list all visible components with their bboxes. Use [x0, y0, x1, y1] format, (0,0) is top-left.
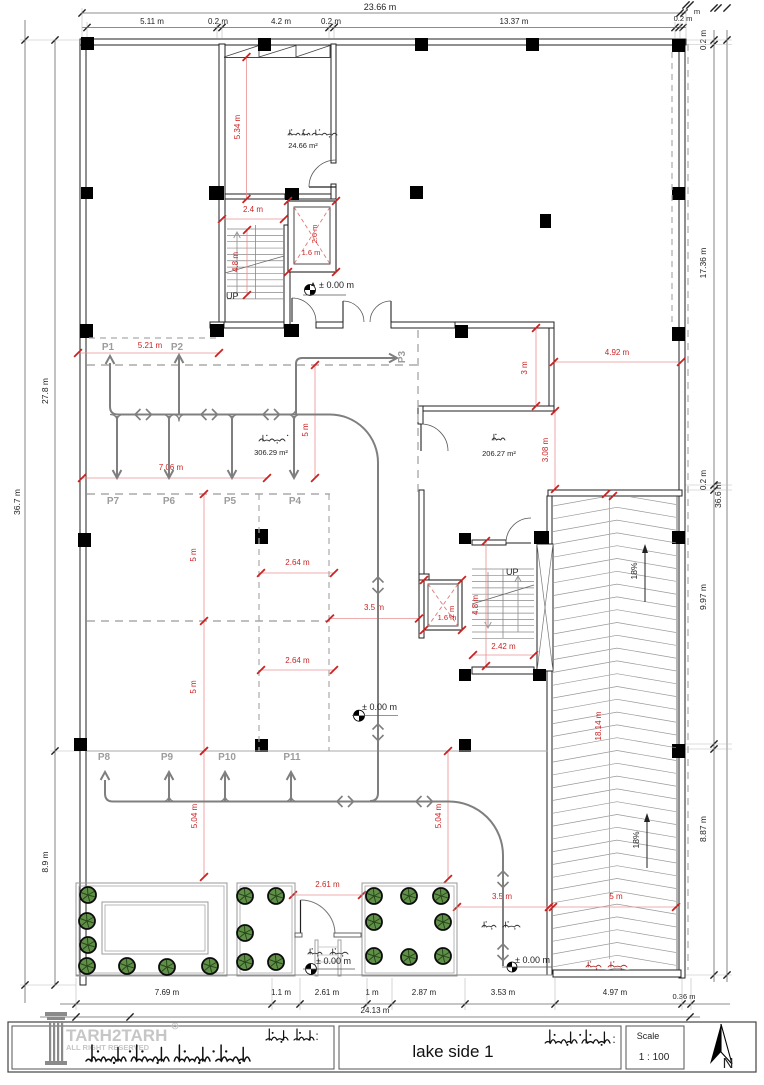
- svg-text::: :: [612, 1032, 615, 1046]
- svg-text:5.21 m: 5.21 m: [138, 341, 163, 350]
- svg-text:5 m: 5 m: [189, 680, 198, 694]
- svg-text:5 m: 5 m: [609, 892, 623, 901]
- svg-text:P9: P9: [161, 752, 174, 763]
- svg-text:23.66 m: 23.66 m: [364, 2, 397, 12]
- svg-text:± 0.00 m: ± 0.00 m: [319, 280, 354, 290]
- svg-text:24.13 m: 24.13 m: [361, 1006, 390, 1015]
- svg-text:m: m: [694, 7, 700, 16]
- svg-text:3.08 m: 3.08 m: [541, 437, 550, 462]
- svg-text:5.04 m: 5.04 m: [190, 803, 199, 828]
- svg-text:36.6 m: 36.6 m: [713, 482, 723, 508]
- svg-text:18.14 m: 18.14 m: [594, 711, 603, 740]
- svg-text:4.97 m: 4.97 m: [603, 988, 628, 997]
- svg-text:5 m: 5 m: [301, 423, 310, 437]
- svg-text:UP: UP: [226, 291, 239, 301]
- svg-text:P5: P5: [224, 496, 237, 507]
- svg-text:± 0.00 m: ± 0.00 m: [316, 956, 351, 966]
- svg-text:2.87 m: 2.87 m: [412, 988, 437, 997]
- svg-text:0.36 m: 0.36 m: [673, 992, 696, 1001]
- svg-text:3 m: 3 m: [520, 361, 529, 375]
- svg-text:5 m: 5 m: [189, 548, 198, 562]
- svg-text:2.42 m: 2.42 m: [491, 642, 516, 651]
- svg-text:4.8 m: 4.8 m: [471, 595, 480, 615]
- svg-text:1 : 100: 1 : 100: [639, 1052, 670, 1063]
- svg-text:P3: P3: [397, 350, 408, 363]
- svg-text:5.11 m: 5.11 m: [140, 17, 164, 26]
- svg-text:0.2 m: 0.2 m: [699, 470, 708, 490]
- svg-text:P6: P6: [163, 496, 176, 507]
- svg-text:2.61 m: 2.61 m: [315, 880, 340, 889]
- svg-text:206.27 m²: 206.27 m²: [482, 449, 516, 458]
- svg-text:4.2 m: 4.2 m: [271, 17, 291, 26]
- svg-text:P2: P2: [171, 342, 184, 353]
- svg-text:18%: 18%: [631, 831, 641, 848]
- svg-text:UP: UP: [506, 567, 519, 577]
- svg-text:7.06 m: 7.06 m: [159, 463, 184, 472]
- svg-text:9.97 m: 9.97 m: [698, 584, 708, 610]
- svg-text:3.5 m: 3.5 m: [364, 603, 384, 612]
- svg-text:lake side 1: lake side 1: [412, 1042, 493, 1061]
- svg-text:5.34 m: 5.34 m: [233, 114, 242, 139]
- svg-text:1.1 m: 1.1 m: [271, 988, 291, 997]
- svg-text:0.2 m: 0.2 m: [674, 14, 693, 23]
- svg-text:18%: 18%: [629, 562, 639, 579]
- svg-text:1.6 m: 1.6 m: [438, 613, 457, 622]
- svg-text:36.7 m: 36.7 m: [12, 489, 22, 515]
- svg-text:17.36 m: 17.36 m: [698, 248, 708, 279]
- svg-text:P4: P4: [289, 496, 302, 507]
- svg-text:8.9 m: 8.9 m: [40, 851, 50, 872]
- svg-text:0.2 m: 0.2 m: [208, 17, 228, 26]
- svg-text:± 0.00 m: ± 0.00 m: [515, 955, 550, 965]
- svg-text:P10: P10: [218, 752, 236, 763]
- svg-text:4.92 m: 4.92 m: [605, 348, 630, 357]
- svg-text:R: R: [173, 1025, 177, 1031]
- svg-text:1.6 m: 1.6 m: [302, 248, 321, 257]
- svg-text:13.37 m: 13.37 m: [500, 17, 529, 26]
- svg-text:306.29 m²: 306.29 m²: [254, 448, 288, 457]
- svg-text:8.87 m: 8.87 m: [698, 816, 708, 842]
- svg-text:1 m: 1 m: [365, 988, 379, 997]
- svg-text:Scale: Scale: [637, 1031, 660, 1041]
- svg-text:2.61 m: 2.61 m: [315, 988, 340, 997]
- svg-text:5.04 m: 5.04 m: [434, 803, 443, 828]
- svg-text:4.8 m: 4.8 m: [231, 252, 240, 272]
- svg-text:7.69 m: 7.69 m: [155, 988, 180, 997]
- svg-text:2.6 m: 2.6 m: [310, 225, 319, 244]
- svg-text::: :: [315, 1029, 318, 1043]
- svg-text:N: N: [723, 1055, 734, 1072]
- svg-text:24.66 m²: 24.66 m²: [288, 141, 318, 150]
- svg-text:0.2 m: 0.2 m: [321, 17, 341, 26]
- svg-text:2.4 m: 2.4 m: [243, 205, 263, 214]
- svg-text:P1: P1: [102, 342, 115, 353]
- svg-text:± 0.00 m: ± 0.00 m: [362, 702, 397, 712]
- svg-text:27.8 m: 27.8 m: [40, 378, 50, 404]
- svg-text:2.64 m: 2.64 m: [285, 558, 310, 567]
- svg-text:3.53 m: 3.53 m: [491, 988, 516, 997]
- svg-text:P7: P7: [107, 496, 120, 507]
- svg-text:P11: P11: [283, 752, 301, 763]
- svg-text:2.64 m: 2.64 m: [285, 656, 310, 665]
- svg-text:P8: P8: [98, 752, 111, 763]
